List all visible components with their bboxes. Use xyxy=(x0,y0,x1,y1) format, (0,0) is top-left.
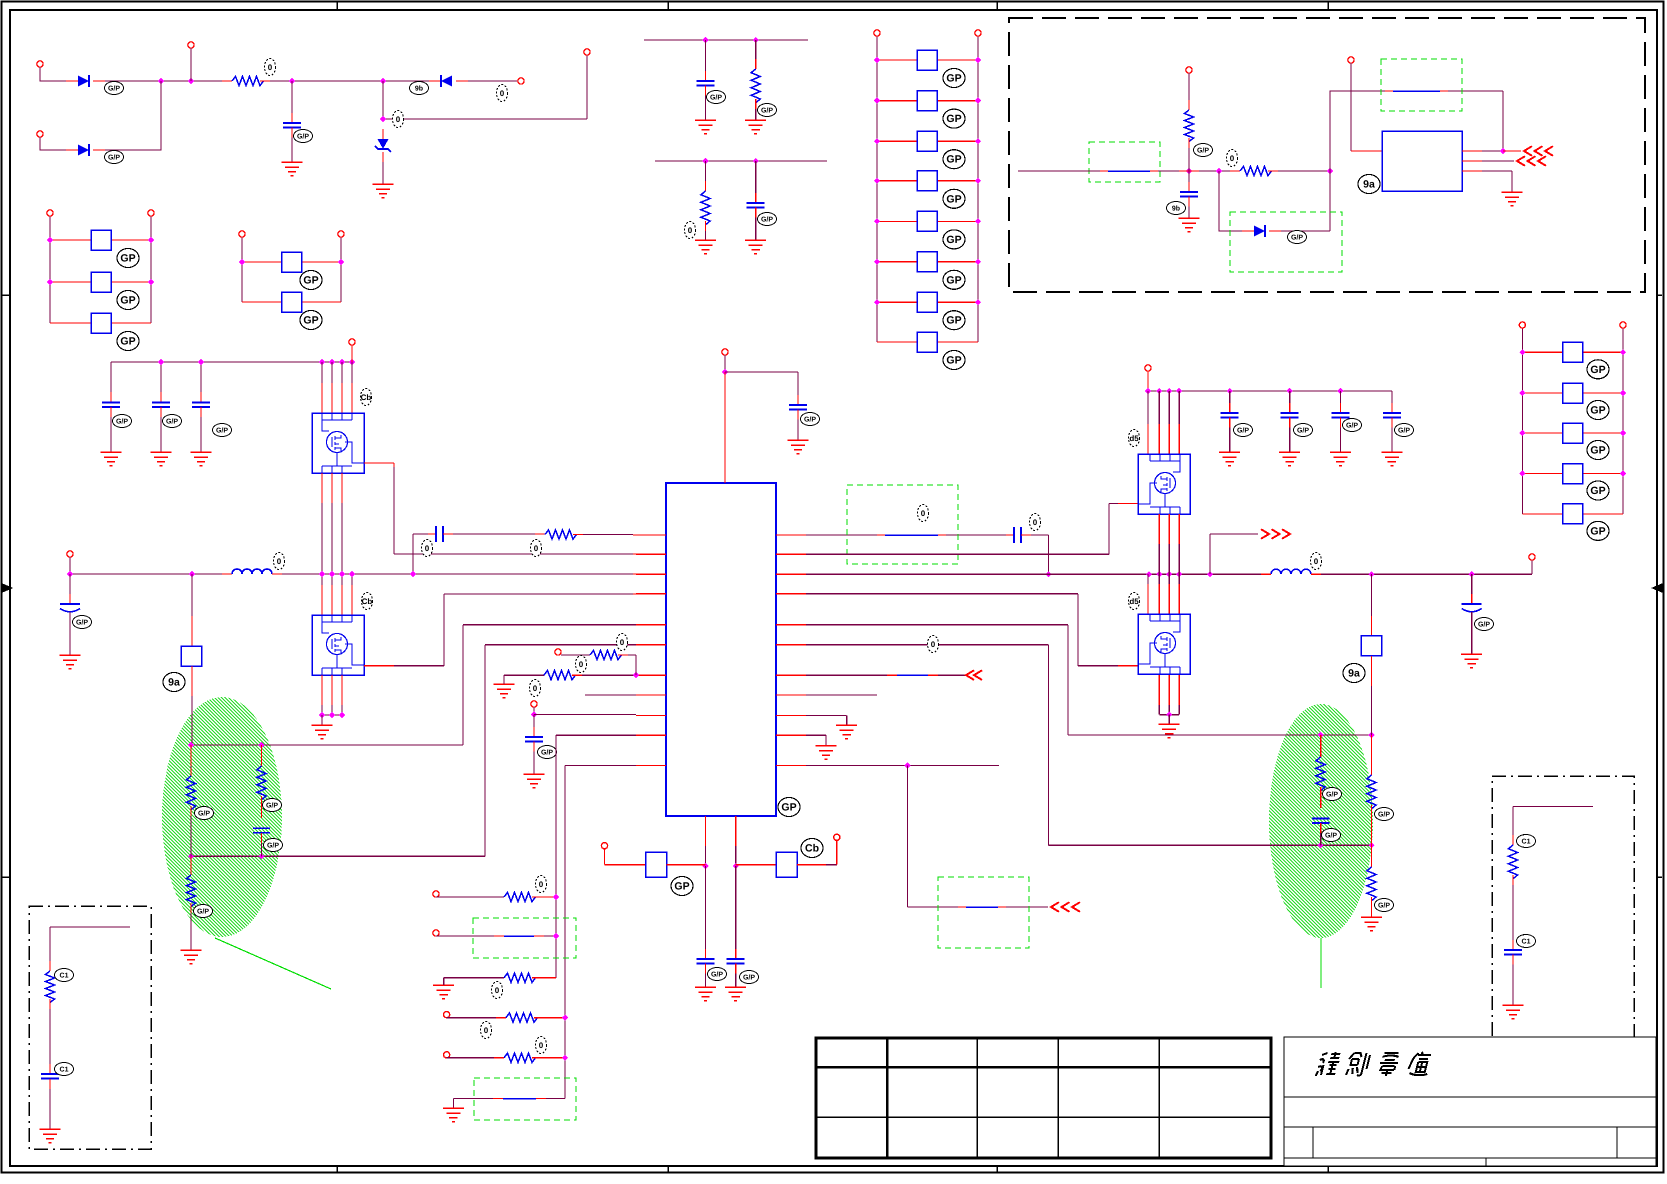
svg-text:G/P: G/P xyxy=(1297,427,1309,435)
svg-text:9a: 9a xyxy=(1348,668,1360,680)
svg-text:0: 0 xyxy=(931,640,936,649)
svg-text:GP: GP xyxy=(946,315,961,327)
svg-text:GP: GP xyxy=(120,336,135,348)
svg-text:0: 0 xyxy=(539,1041,544,1050)
svg-text:G/P: G/P xyxy=(116,418,128,426)
svg-text:GP: GP xyxy=(946,73,961,85)
svg-text:0: 0 xyxy=(620,638,625,647)
svg-text:0: 0 xyxy=(534,544,539,553)
svg-text:d5: d5 xyxy=(1129,434,1139,443)
svg-text:G/P: G/P xyxy=(216,427,228,435)
svg-text:G/P: G/P xyxy=(1326,791,1338,799)
svg-text:GP: GP xyxy=(120,253,135,265)
svg-text:0: 0 xyxy=(1033,518,1038,527)
svg-text:G/P: G/P xyxy=(1325,832,1337,840)
svg-text:0: 0 xyxy=(1230,154,1235,163)
svg-text:Cb: Cb xyxy=(805,843,819,855)
svg-text:9a: 9a xyxy=(168,677,180,689)
svg-text:G/P: G/P xyxy=(108,154,120,162)
svg-text:C1: C1 xyxy=(1522,939,1531,946)
svg-text:G/P: G/P xyxy=(166,418,178,426)
svg-text:G/P: G/P xyxy=(761,216,773,224)
svg-text:GP: GP xyxy=(946,355,961,367)
svg-text:G/P: G/P xyxy=(297,133,309,141)
svg-text:GP: GP xyxy=(946,154,961,166)
svg-text:d5: d5 xyxy=(1129,597,1139,606)
svg-text:G/P: G/P xyxy=(710,94,722,102)
svg-text:G/P: G/P xyxy=(76,619,88,627)
svg-text:G/P: G/P xyxy=(711,971,723,979)
svg-text:G/P: G/P xyxy=(761,107,773,115)
svg-text:G/P: G/P xyxy=(1478,621,1490,629)
svg-text:G/P: G/P xyxy=(1346,422,1358,430)
svg-text:G/P: G/P xyxy=(1237,427,1249,435)
svg-text:GP: GP xyxy=(1590,485,1605,497)
svg-text:GP: GP xyxy=(1590,405,1605,417)
svg-text:0: 0 xyxy=(268,63,273,72)
svg-text:GP: GP xyxy=(1590,525,1605,537)
svg-text:G/P: G/P xyxy=(197,908,209,916)
svg-text:GP: GP xyxy=(120,295,135,307)
svg-text:G/P: G/P xyxy=(266,802,278,810)
svg-text:GP: GP xyxy=(303,315,318,327)
svg-text:0: 0 xyxy=(539,880,544,889)
svg-text:GP: GP xyxy=(674,881,689,893)
svg-text:G/P: G/P xyxy=(1291,234,1303,242)
svg-text:C1: C1 xyxy=(60,973,69,980)
svg-text:G/P: G/P xyxy=(1398,427,1410,435)
svg-text:0: 0 xyxy=(1314,557,1319,566)
svg-text:Cb: Cb xyxy=(361,393,372,402)
svg-text:9b: 9b xyxy=(415,85,423,93)
svg-text:GP: GP xyxy=(1590,364,1605,376)
svg-text:G/P: G/P xyxy=(198,810,210,818)
svg-text:9b: 9b xyxy=(1172,205,1180,213)
svg-text:9a: 9a xyxy=(1363,179,1375,191)
svg-text:0: 0 xyxy=(495,986,500,995)
svg-text:G/P: G/P xyxy=(1378,902,1390,910)
svg-text:GP: GP xyxy=(1590,445,1605,457)
svg-text:0: 0 xyxy=(533,684,538,693)
svg-text:G/P: G/P xyxy=(267,842,279,850)
svg-text:G/P: G/P xyxy=(743,974,755,982)
svg-text:0: 0 xyxy=(484,1026,489,1035)
svg-text:G/P: G/P xyxy=(541,749,553,757)
svg-text:C1: C1 xyxy=(1522,839,1531,846)
svg-text:0: 0 xyxy=(277,557,282,566)
svg-text:GP: GP xyxy=(946,113,961,125)
svg-text:0: 0 xyxy=(921,509,926,518)
svg-text:G/P: G/P xyxy=(1197,147,1209,155)
svg-text:GP: GP xyxy=(946,274,961,286)
svg-text:GP: GP xyxy=(781,802,796,814)
svg-text:G/P: G/P xyxy=(804,416,816,424)
svg-text:GP: GP xyxy=(946,193,961,205)
svg-text:0: 0 xyxy=(500,89,505,98)
svg-text:0: 0 xyxy=(396,115,401,124)
svg-text:0: 0 xyxy=(688,226,693,235)
svg-text:0: 0 xyxy=(425,544,430,553)
svg-text:C1: C1 xyxy=(60,1067,69,1074)
svg-text:Cb: Cb xyxy=(362,597,373,606)
svg-text:G/P: G/P xyxy=(1378,811,1390,819)
svg-text:G/P: G/P xyxy=(108,85,120,93)
svg-text:GP: GP xyxy=(946,234,961,246)
svg-text:0: 0 xyxy=(579,660,584,669)
svg-text:GP: GP xyxy=(303,275,318,287)
